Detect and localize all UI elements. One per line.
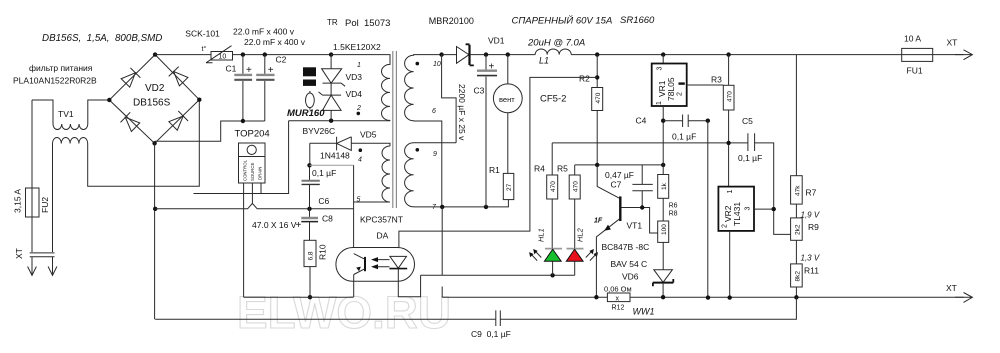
svg-text:VT1: VT1 bbox=[627, 221, 643, 231]
wire caps bottom to bridge minus bbox=[155, 121, 265, 141]
svg-text:C3: C3 bbox=[474, 86, 485, 96]
svg-text:C2: C2 bbox=[276, 55, 287, 65]
svg-text:22.0 mF x 400 v: 22.0 mF x 400 v bbox=[244, 37, 306, 47]
svg-text:27: 27 bbox=[506, 183, 513, 191]
svg-text:3: 3 bbox=[745, 207, 752, 211]
wire pin7 down to output gnd bbox=[441, 207, 443, 297]
capacitor C3 bbox=[484, 52, 488, 56]
svg-text:HL2: HL2 bbox=[576, 227, 585, 242]
resistor R11 bbox=[795, 240, 797, 264]
svg-text:VD5: VD5 bbox=[360, 130, 377, 140]
wire feedback sense line bbox=[552, 143, 790, 235]
svg-text:R12: R12 bbox=[612, 305, 625, 312]
svg-text:0,1 µF: 0,1 µF bbox=[312, 168, 336, 178]
svg-text:VD6: VD6 bbox=[622, 272, 639, 282]
svg-text:1k: 1k bbox=[661, 182, 668, 190]
svg-text:470: 470 bbox=[727, 91, 734, 102]
svg-text:R4: R4 bbox=[534, 164, 545, 174]
svg-text:1: 1 bbox=[656, 101, 663, 105]
svg-text:1: 1 bbox=[357, 62, 361, 69]
svg-text:22.0 mF x 400 v: 22.0 mF x 400 v bbox=[233, 27, 295, 37]
svg-text:XT: XT bbox=[14, 248, 24, 259]
wire collector node line bbox=[575, 164, 664, 166]
svg-text:1: 1 bbox=[727, 190, 734, 194]
svg-text:C9 0,1 µF: C9 0,1 µF bbox=[471, 329, 511, 339]
fan вент bbox=[506, 52, 510, 56]
svg-text:R9: R9 bbox=[808, 222, 819, 232]
svg-text:10: 10 bbox=[219, 53, 227, 60]
svg-text:6,8: 6,8 bbox=[308, 251, 315, 260]
wire TV1 lower to bridge right bbox=[88, 100, 200, 186]
svg-text:R10: R10 bbox=[318, 244, 328, 260]
wire pin2 to clamp and drain bbox=[289, 120, 390, 122]
svg-text:TR: TR bbox=[327, 18, 338, 27]
svg-text:DA: DA bbox=[377, 231, 389, 241]
resistor R10 bbox=[304, 240, 316, 266]
bridge rectifier VD2 DB156S bbox=[109, 55, 199, 144]
svg-text:470: 470 bbox=[573, 181, 580, 192]
opto phototransistor bbox=[364, 257, 366, 271]
svg-text:R6: R6 bbox=[669, 203, 678, 210]
svg-text:SCK-101: SCK-101 bbox=[185, 29, 220, 39]
svg-text:6: 6 bbox=[432, 108, 436, 115]
svg-text:R1: R1 bbox=[489, 165, 500, 175]
svg-text:CONTROL: CONTROL bbox=[243, 159, 248, 181]
svg-text:VD2: VD2 bbox=[145, 83, 165, 94]
svg-text:TL431: TL431 bbox=[732, 202, 742, 226]
svg-text:DB156S, 1,5A, 800B,SMD: DB156S, 1,5A, 800B,SMD bbox=[42, 33, 162, 44]
svg-text:+: + bbox=[246, 65, 252, 76]
svg-text:DB156S: DB156S bbox=[133, 98, 171, 109]
svg-text:t°: t° bbox=[202, 45, 207, 53]
svg-text:8k2: 8k2 bbox=[794, 271, 801, 282]
secondary winding 2 bbox=[405, 143, 457, 207]
svg-text:2k2: 2k2 bbox=[794, 224, 801, 235]
svg-text:10: 10 bbox=[433, 61, 441, 68]
svg-text:2: 2 bbox=[356, 105, 361, 112]
svg-text:BAV 54 C: BAV 54 C bbox=[611, 259, 648, 269]
svg-text:2200 µF x 25 v: 2200 µF x 25 v bbox=[457, 84, 467, 141]
svg-text:C4: C4 bbox=[636, 116, 647, 126]
svg-text:KPC357NT: KPC357NT bbox=[360, 215, 403, 225]
svg-text:R3: R3 bbox=[711, 75, 722, 85]
resistor R2 bbox=[595, 52, 599, 56]
wire bridge minus down bbox=[154, 143, 156, 319]
svg-text:0,47 µF: 0,47 µF bbox=[605, 170, 634, 180]
svg-text:WW1: WW1 bbox=[633, 307, 655, 317]
svg-text:+: + bbox=[268, 65, 274, 76]
svg-text:1N4148: 1N4148 bbox=[320, 151, 350, 161]
wire base line bbox=[622, 208, 658, 234]
svg-text:VD4: VD4 bbox=[346, 89, 363, 99]
svg-text:R11: R11 bbox=[804, 266, 819, 276]
capacitor C6 bbox=[307, 207, 311, 211]
opto light arrows bbox=[377, 260, 390, 267]
wire drain riser bbox=[194, 121, 289, 194]
feedback winding bbox=[354, 146, 390, 202]
svg-text:Pol 15073: Pol 15073 bbox=[345, 18, 390, 29]
svg-text:TV1: TV1 bbox=[58, 109, 74, 119]
svg-text:470: 470 bbox=[550, 181, 557, 192]
svg-text:C8: C8 bbox=[322, 214, 333, 224]
svg-text:SR1660: SR1660 bbox=[620, 15, 655, 26]
svg-text:+: + bbox=[489, 62, 495, 73]
transistor VT1 BC847B bbox=[597, 165, 620, 199]
wire opto anode feed bbox=[399, 77, 597, 247]
wire output gnd rail bbox=[442, 296, 963, 298]
svg-text:ELWO.RU: ELWO.RU bbox=[237, 287, 451, 338]
wire mains line 2 bbox=[52, 144, 54, 253]
svg-text:FU1: FU1 bbox=[907, 66, 923, 76]
svg-text:MUR160: MUR160 bbox=[287, 108, 325, 119]
resistor R7 bbox=[795, 55, 797, 176]
wire pin10 to pin9 jog bbox=[439, 52, 443, 56]
svg-text:0,1 µF: 0,1 µF bbox=[738, 153, 762, 163]
wire rail to caps bbox=[233, 54, 332, 56]
svg-text:1F: 1F bbox=[594, 218, 603, 225]
svg-text:20uH @ 7.0A: 20uH @ 7.0A bbox=[527, 38, 585, 49]
svg-text:100: 100 bbox=[661, 224, 668, 235]
svg-text:VD3: VD3 bbox=[346, 72, 363, 82]
svg-text:L1: L1 bbox=[539, 56, 549, 66]
resistor R8 bbox=[662, 198, 664, 221]
svg-text:R2: R2 bbox=[579, 74, 590, 84]
SMD package icon bbox=[303, 67, 316, 86]
svg-text:BYV26C: BYV26C bbox=[303, 126, 336, 136]
svg-text:BC847B -8C: BC847B -8C bbox=[602, 242, 650, 252]
svg-text:1,9 V: 1,9 V bbox=[801, 211, 820, 220]
svg-text:C5: C5 bbox=[742, 116, 753, 126]
svg-text:0,1 µF: 0,1 µF bbox=[672, 132, 696, 142]
secondary winding 1 bbox=[405, 55, 442, 121]
svg-text:TOP204: TOP204 bbox=[235, 129, 270, 140]
svg-text:XT: XT bbox=[947, 38, 958, 48]
svg-text:10 A: 10 A bbox=[904, 34, 921, 44]
svg-text:0,06 Ом: 0,06 Ом bbox=[604, 284, 632, 293]
TVS VD3 bbox=[329, 52, 333, 56]
svg-text:FU2: FU2 bbox=[40, 197, 50, 213]
svg-text:DRAIN: DRAIN bbox=[258, 167, 263, 180]
svg-text:MBR20100: MBR20100 bbox=[429, 16, 474, 26]
svg-text:470: 470 bbox=[595, 92, 602, 103]
svg-text:R5: R5 bbox=[557, 164, 568, 174]
svg-text:PLA10AN1522R0R2B: PLA10AN1522R0R2B bbox=[13, 76, 97, 86]
svg-text:XT: XT bbox=[946, 283, 957, 293]
svg-text:R7: R7 bbox=[806, 188, 817, 198]
opto LED bbox=[390, 256, 407, 268]
TVS VD4 bbox=[330, 83, 332, 95]
wire C6 node bbox=[309, 143, 311, 165]
wire pin6 down bbox=[414, 121, 442, 207]
capacitor C8 bbox=[309, 209, 311, 217]
svg-text:C6: C6 bbox=[318, 196, 329, 206]
svg-text:3: 3 bbox=[657, 67, 664, 71]
resistor R6 bbox=[662, 165, 664, 175]
fuse FU1 bbox=[902, 48, 933, 61]
svg-text:47k: 47k bbox=[794, 185, 801, 196]
svg-text:4: 4 bbox=[358, 157, 362, 164]
regulator VR2 TL431 bbox=[718, 187, 754, 231]
svg-text:x: x bbox=[616, 295, 620, 302]
svg-text:вент: вент bbox=[499, 95, 515, 104]
svg-text:5: 5 bbox=[357, 197, 361, 204]
wire drain pin bbox=[260, 183, 262, 194]
svg-text:2: 2 bbox=[677, 92, 684, 96]
wire secondary gnd rail bbox=[414, 200, 509, 207]
svg-text:1,3 V: 1,3 V bbox=[801, 254, 820, 263]
svg-text:СПАРЕННЫЙ 60V 15A: СПАРЕННЫЙ 60V 15A bbox=[512, 15, 613, 27]
transformer core bbox=[393, 51, 397, 208]
svg-text:VD1: VD1 bbox=[488, 36, 505, 46]
svg-text:C1: C1 bbox=[226, 64, 237, 74]
svg-text:47.0 X 16 V: 47.0 X 16 V bbox=[252, 220, 297, 230]
svg-text:9: 9 bbox=[433, 151, 437, 158]
wire control pin down bbox=[243, 183, 245, 297]
capacitor C9 line bbox=[155, 297, 796, 319]
wire led cathode line bbox=[421, 274, 575, 276]
resistor R9 bbox=[795, 204, 797, 218]
primary winding bbox=[331, 55, 390, 121]
wire mains line 1 bbox=[32, 100, 53, 252]
svg-text:3,15 A: 3,15 A bbox=[13, 189, 23, 213]
svg-text:R8: R8 bbox=[669, 211, 678, 218]
svg-text:78L05: 78L05 bbox=[666, 77, 676, 101]
svg-text:HL1: HL1 bbox=[537, 228, 546, 242]
wire gnd drop bbox=[707, 121, 709, 298]
wire source rail with hop bbox=[155, 203, 353, 208]
svg-text:1.5KE120X2: 1.5KE120X2 bbox=[333, 42, 381, 52]
svg-text:CF5-2: CF5-2 bbox=[540, 94, 566, 105]
inductor L1 bbox=[535, 49, 571, 55]
svg-text:C7: C7 bbox=[611, 180, 622, 190]
svg-text:2: 2 bbox=[722, 224, 729, 228]
fuse FU2 bbox=[26, 188, 40, 217]
svg-text:фильтр питания: фильтр питания bbox=[29, 63, 93, 73]
wire TV1 upper to bridge bbox=[88, 100, 110, 124]
MUR160 diode icon bbox=[306, 93, 315, 108]
regulator VR1 78L05 bbox=[661, 52, 665, 56]
svg-text:SOURCE: SOURCE bbox=[250, 162, 255, 181]
wire output top rail bbox=[442, 54, 964, 56]
wire pin5 opto collector bbox=[353, 165, 355, 253]
wire primary bottom rail bbox=[244, 296, 354, 298]
terminal XT mains bbox=[30, 253, 55, 257]
